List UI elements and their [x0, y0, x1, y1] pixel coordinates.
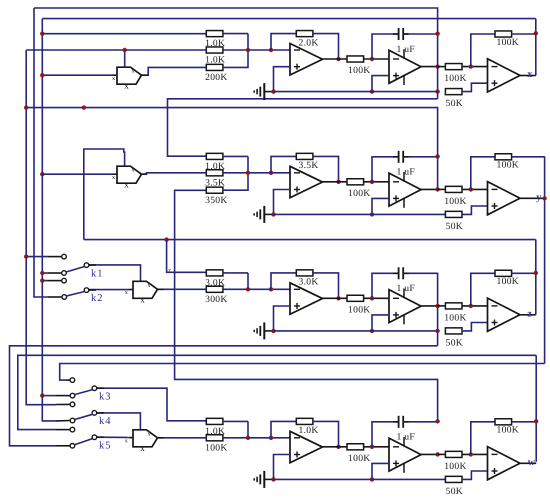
node net-x tap row2 multiplier [40, 172, 44, 176]
svg-text:50K: 50K [446, 486, 463, 497]
wire row2 R21 right lead to join [223, 155, 248, 157]
wire row1 U1A output to series resistor [323, 58, 348, 60]
node row1 cap junction [435, 32, 439, 36]
wire busB y=107.6 row2 integrator output to row1 input feed [26, 108, 437, 157]
wire k5 upper contact pin [56, 429, 70, 431]
wire row2 feedback 100K to output vertical [512, 156, 545, 158]
wire row1 U1C output [520, 75, 536, 77]
wire row3 R32 right lead to op-amp [223, 288, 290, 290]
node row4 third-stage minus node [469, 452, 473, 456]
wire row3 cap right lead to output vertical [403, 272, 437, 274]
svg-text:100K: 100K [205, 442, 228, 453]
wire k5 output pin [97, 436, 104, 438]
node row3 summing junction x=248 [246, 287, 250, 291]
wire k4 upper contact pin [56, 403, 70, 405]
svg-text:50K: 50K [446, 338, 463, 349]
op-amp U3A summing [290, 283, 323, 315]
svg-text:100K: 100K [497, 160, 520, 171]
wire row1 multiplier left input y=75.2 from net-x [42, 74, 113, 76]
resistor row3 feedback Rf3 3.0K [296, 270, 318, 288]
capacitor C3 lead stubs [393, 272, 398, 274]
wire row1 R11 right lead to join [223, 33, 248, 35]
wire row3 U3A feedback to resistor 3.0K [271, 273, 296, 289]
svg-text:1 uF: 1 uF [397, 432, 416, 443]
capacitor C2 lead stubs [393, 156, 398, 158]
wire k2 output to row3 multiplier left pin [89, 289, 129, 291]
ground row1 [254, 83, 273, 100]
svg-text:z: z [168, 267, 171, 274]
wire k3 output pin [97, 387, 104, 389]
svg-text:50K: 50K [446, 221, 463, 232]
node row3 integrator cap tap [370, 296, 374, 300]
node net-x feedback junction [534, 31, 538, 35]
resistor row3 feedback 100K [495, 270, 519, 287]
wire multiplier A4 output pin [158, 437, 164, 439]
wire k1 pivot feed from net-x [42, 272, 48, 274]
node row4 integrator output [435, 452, 439, 456]
wire row1 R13 right lead up to join [223, 50, 248, 67]
op-amp U1C inverter [488, 59, 521, 92]
node row2 summing junction x=248 [246, 171, 250, 175]
svg-text:x: x [124, 81, 129, 91]
ground row4 [254, 471, 273, 488]
resistor row2 feedback 100K [495, 154, 519, 171]
wire row1 feedback right side down to output [313, 34, 339, 59]
wire row4 U4A plus input to rail [274, 455, 291, 480]
wire row3 output node to input 100K [438, 305, 446, 307]
wire row2 cap right lead to output vertical [403, 156, 437, 158]
wire net-z riser x=83.8 to row2 multiplier top pin [84, 149, 125, 240]
wire row1 op-amp U1 minus input line y=50 [26, 49, 206, 51]
wire k5 output to row4 multiplier left pin [97, 436, 129, 438]
resistor row4 feedback Rf4 1.0K [296, 418, 318, 436]
resistor row1 input R11 1.0K [205, 31, 225, 50]
wire multiplier A2 output to 3.5K [142, 173, 207, 174]
wire k3 upper contact pin [66, 379, 70, 381]
node row4 rail at U4B plus drop [370, 477, 374, 481]
svg-text:1.0K: 1.0K [299, 425, 319, 436]
wire row2 ground rail to 50K [274, 213, 446, 215]
wire row4 U4C feedback to 100K [471, 422, 495, 455]
resistor row1 feedback 100K [495, 31, 519, 48]
op-amp U2B integrator [389, 172, 421, 208]
resistor row4 input R41 1.0K [205, 418, 225, 437]
node net-x tap row1 multiplier [40, 73, 44, 77]
resistor row2 series Rs2 100K [347, 179, 371, 199]
wire net-x left vertical x=42.3 with branch to k4 pivot [42, 19, 56, 421]
wire row4 100K to op-amp minus [462, 453, 488, 455]
svg-text:100K: 100K [444, 73, 467, 84]
wire row4 cap tap riser [372, 422, 399, 447]
resistor row1 input R12 1.0K [205, 47, 225, 66]
wire row3 ground rail [274, 330, 438, 332]
switch k2 [62, 278, 104, 304]
wire multiplier A4 output to 100K [158, 437, 207, 439]
wire row3 cap tap riser [372, 273, 399, 298]
node row2 integrator cap tap [370, 180, 374, 184]
wire row1 U1A feedback to resistor 2.0K [271, 34, 296, 50]
resistor row2 input R22 3.5K [205, 170, 225, 189]
node net-x tap row1 top resistor [40, 32, 44, 36]
svg-text:x: x [125, 438, 128, 444]
switch k4 [70, 402, 111, 427]
wire row4 feedback right side down to output [313, 421, 339, 446]
wire net-z drop to row3 top resistor 3.0K [167, 240, 207, 273]
wire net-y left vertical x=26.2 (row1 summing input feed) with branch to k4 upper contact [26, 50, 56, 405]
node row1 rail/50K junction [435, 89, 439, 93]
svg-text:3.5K: 3.5K [299, 160, 319, 171]
node net-x tap k3 pivot [40, 393, 44, 397]
wire k2 upper contact feed from net-x [42, 280, 48, 282]
svg-text:2.0K: 2.0K [299, 37, 319, 48]
svg-text:100K: 100K [497, 425, 520, 436]
node row1 rail at U1A plus drop [271, 89, 275, 93]
multiplier A2 [112, 166, 142, 189]
resistor row3 series Rs3 100K [347, 295, 371, 315]
op-amp U1B integrator [389, 49, 421, 85]
node row1 integrator output [435, 64, 439, 68]
wire row2 output vertical cap to output node [437, 156, 439, 189]
svg-text:x: x [112, 76, 115, 82]
wire row2 U2C feedback to 100K [471, 157, 495, 190]
wire row3 U3C output [520, 314, 536, 316]
resistor row4 series Rs4 100K [347, 444, 371, 464]
node row2 third-stage minus node [469, 187, 473, 191]
resistor row3 third-stage input 100K [444, 303, 467, 324]
svg-text:x: x [140, 443, 145, 453]
resistor row1 third-stage input 100K [444, 64, 467, 85]
wire row4 U4B plus input to rail [372, 463, 389, 479]
wire row2 R23 right lead up to join [223, 173, 248, 190]
wire bus2 net-w to k5 upper contact [18, 355, 536, 429]
resistor row1 series Rs1 100K [347, 56, 371, 76]
wire multiplier A1 top pin from minus line [124, 50, 126, 68]
wire row1 cap tap riser [372, 34, 399, 59]
resistor row2 input R21 1.0K [205, 153, 225, 172]
wire row4 output node to input 100K [438, 453, 446, 455]
svg-text:1 uF: 1 uF [397, 167, 416, 178]
op-amp U4B integrator [389, 437, 421, 473]
wire k3 pivot feed from net-x [42, 395, 56, 397]
wire row3 U3C feedback to 100K [471, 273, 495, 306]
resistor row3 bias 50K [445, 328, 463, 349]
wire row2 50K to plus input [462, 206, 488, 214]
resistor row2 third-stage input 100K [444, 186, 467, 207]
wire row3 R31 right lead to join [223, 272, 248, 274]
wire multiplier A3 left pin [129, 288, 133, 290]
wire net-u vertical x=174.6 row2 350K to bus4 [175, 190, 438, 421]
wire row3 U3A output to series resistor [323, 297, 348, 299]
svg-text:3.0K: 3.0K [299, 277, 319, 288]
svg-text:x: x [112, 175, 115, 181]
wire k1 pivot pin [48, 272, 62, 274]
svg-text:300K: 300K [205, 294, 228, 305]
wire row2 U2C output [520, 197, 545, 199]
svg-text:x: x [132, 168, 135, 174]
svg-text:100K: 100K [444, 461, 467, 472]
wire row2 series resistor to integrator minus [364, 181, 389, 183]
wire row4 U4C output [520, 462, 536, 464]
wire row2 net-x stub to multiplier [42, 173, 113, 175]
wire k1 output pin [89, 264, 96, 266]
wire net-gnd left vertical x=34 down to k2 pivot [34, 8, 48, 297]
node row4 integrator cap tap [370, 445, 374, 449]
wire k3 pivot pin [56, 395, 70, 397]
node row3 rail at U3A plus drop [271, 329, 275, 333]
svg-text:w: w [528, 457, 536, 468]
wire row4 cap right lead to output vertical [403, 421, 437, 423]
wire row3 feedback right side down to output [313, 273, 339, 298]
wire row3 series resistor to integrator minus [364, 297, 389, 299]
node row2 rail at U2B plus drop [370, 212, 374, 216]
wire row1 series resistor to integrator minus [364, 58, 389, 60]
wire row1 output vertical x=437.6 cap to busA [437, 34, 439, 99]
capacitor C4 1uF [397, 416, 416, 443]
wire row4 50K to plus input [462, 471, 488, 479]
resistor row4 input R42 100K [205, 435, 228, 454]
capacitor C1 1uF [397, 28, 416, 55]
multiplier A1 [112, 67, 142, 90]
svg-text:x: x [148, 431, 151, 437]
wire row1 100K to op-amp minus [462, 66, 488, 68]
op-amp U4C inverter [488, 447, 521, 480]
wire k4 pivot pin [56, 420, 70, 422]
svg-text:x: x [527, 69, 532, 80]
node multiplier A1 top pin tap [123, 48, 127, 52]
wire k2 upper contact pin [48, 280, 62, 282]
wire row3 100K to op-amp minus [462, 305, 488, 307]
node row1 U1A output junction [336, 57, 340, 61]
resistor row2 bias 50K [445, 211, 463, 232]
node row4 cap junction [435, 419, 439, 423]
wire row1 ground rail [274, 91, 438, 93]
wire k1 upper contact feed from net-y vertical [26, 256, 48, 258]
node row1 feedback tap on minus line [269, 48, 273, 52]
wire row4 U4A output to series resistor [323, 446, 348, 448]
resistor row4 bias 50K [445, 476, 463, 497]
node row4 summing junction x=248 [246, 436, 250, 440]
ground row2 [254, 206, 273, 223]
node row1 rail at U1B plus drop [370, 89, 374, 93]
wire net-z right vertical to bus z [535, 240, 537, 315]
node row1 summing junction x=248 [246, 48, 250, 52]
wire row4 join vertical x=248 [247, 421, 249, 437]
op-amp U2C inverter [488, 182, 521, 215]
wire row2 join vertical x=248 [247, 156, 249, 172]
wire row1 output node to input 100K [438, 66, 446, 68]
wire bus1 net row3-integrator to k5 lower contact [10, 346, 438, 446]
svg-text:350K: 350K [205, 195, 228, 206]
node row3 U3A output junction [336, 296, 340, 300]
wire row1 feedback 100K to output vertical [512, 33, 536, 35]
node row3 output junction [435, 304, 439, 308]
wire net-x right vertical [535, 19, 537, 76]
node row4 rail at U4A plus drop [271, 477, 275, 481]
wire row2 U2A output to series resistor [323, 181, 348, 183]
wire row4 U4A feedback to resistor 1.0K [271, 421, 296, 437]
node row3 rail/50K junction [435, 329, 439, 333]
resistor row1 bias 50K [445, 89, 463, 110]
wire multiplier A3 output pin [158, 288, 164, 290]
svg-text:k2: k2 [91, 293, 104, 304]
wire net-x top line y=18.6 from output x [42, 18, 536, 20]
wire row4 feedback 100K to output vertical [512, 421, 537, 423]
wire k2 pivot pin [48, 296, 62, 298]
wire bus3 net-y to k3 upper contact [60, 364, 545, 381]
node row2 feedback tap on minus line [269, 171, 273, 175]
svg-text:1 uF: 1 uF [397, 283, 416, 294]
capacitor C3 1uF [397, 267, 416, 294]
wire busA y=98.8 row1 integrator output to row2 top resistor [168, 99, 438, 156]
resistor row3 input R32 300K [205, 286, 228, 305]
wire multiplier A2 left pin from net-x [113, 173, 117, 175]
wire net-w right vertical to bus2 [535, 355, 537, 461]
switch k3 [70, 378, 111, 403]
svg-text:100K: 100K [497, 37, 520, 48]
wire row3 output vertical cap to bus1 [437, 273, 439, 346]
wire row2 U2B output to node [421, 188, 438, 190]
wire k3 output to row4 top resistor 1.0K [97, 388, 207, 421]
resistor row2 feedback Rf2 3.5K [296, 153, 318, 171]
node row3 integrator output [435, 304, 439, 308]
node row2 rail at U2A plus drop [271, 212, 275, 216]
node row4 feedback tap on minus line [269, 436, 273, 440]
wire k4 output pin [97, 412, 104, 414]
op-amp U3C inverter [488, 298, 521, 331]
wire k5 pivot pin [56, 445, 70, 447]
svg-text:50K: 50K [446, 98, 463, 109]
wire row4 U4B output to node [421, 453, 438, 455]
node row4 U4A output junction [336, 445, 340, 449]
wire row3 U3B output to node [421, 305, 438, 307]
wire k1 output to row3 multiplier top pin [89, 265, 141, 282]
svg-text:x: x [125, 290, 128, 296]
wire row4 R42 right lead to op-amp [223, 437, 290, 439]
svg-text:z: z [527, 309, 532, 320]
capacitor C1 lead stubs [393, 33, 398, 35]
svg-text:k4: k4 [99, 416, 112, 427]
node row2 cap junction [435, 154, 439, 158]
op-amp U1A summing [290, 44, 323, 76]
wire net-y right vertical to bus3 [544, 156, 546, 363]
wire row2 output node to input 100K [438, 188, 446, 190]
svg-text:100K: 100K [348, 453, 371, 464]
resistor row4 third-stage input 100K [444, 451, 467, 472]
wire row2 R22 right lead to op-amp [223, 172, 290, 174]
wire row2 U2A feedback to resistor 3.5K [271, 156, 296, 172]
wire row1 U1A plus input to rail [274, 67, 291, 92]
svg-text:100K: 100K [348, 188, 371, 199]
wire row4 ground rail to 50K [274, 478, 446, 480]
wire multiplier A1 left pin [113, 74, 117, 76]
resistor row1 input R13 200K [205, 64, 228, 83]
op-amp U2A summing [290, 166, 323, 198]
wire row1 U1C feedback to 100K [471, 34, 495, 67]
wire k4 output to row4 multiplier top pin [97, 413, 141, 430]
svg-text:x: x [148, 283, 151, 289]
wire row3 feedback 100K to output vertical [512, 272, 536, 274]
svg-text:x: x [132, 69, 135, 75]
wire row2 U2A plus input to rail [274, 190, 291, 215]
wire multiplier A1 output pin [142, 74, 149, 76]
svg-text:100K: 100K [444, 313, 467, 324]
wire row1 top resistor feed y=33.7 from net-x [42, 33, 206, 35]
svg-text:x: x [140, 295, 145, 305]
ground row3 [254, 322, 273, 339]
capacitor C2 1uF [397, 151, 416, 178]
multiplier A4 [125, 430, 158, 453]
node net-z tap to row3 top resistor [164, 237, 168, 241]
capacitor C4 lead stubs [393, 421, 398, 423]
resistor row2 input R23 350K [205, 187, 228, 206]
resistor row4 feedback 100K [495, 419, 519, 436]
wire row2 feedback right side down to output [313, 156, 339, 181]
wire multiplier A1 output to 200K [142, 67, 207, 75]
multiplier A3 [125, 281, 158, 304]
wire net-gnd top loop y=8 [34, 8, 438, 34]
node row2 U2A output junction [336, 180, 340, 184]
wire row2 100K to op-amp minus [462, 188, 488, 190]
wire row3 50K to plus input [462, 323, 488, 331]
node row1 third-stage minus node [469, 64, 473, 68]
wire row3 join vertical x=248 [247, 273, 249, 289]
node net-w feedback junction [534, 419, 538, 423]
node net-y output junction [542, 196, 546, 200]
wire row2 cap tap riser [372, 157, 399, 182]
svg-text:100K: 100K [348, 304, 371, 315]
switch k1 [62, 254, 104, 279]
wire row3 U3B plus input to rail [372, 315, 389, 331]
wire k2 output pin [89, 289, 96, 291]
wire multiplier A3 output to 300K [158, 288, 207, 290]
wire k1 upper contact pin [48, 256, 62, 258]
wire row1 cap right lead to output vertical [403, 33, 437, 35]
node net-z feedback junction [534, 271, 538, 275]
svg-text:200K: 200K [205, 72, 228, 83]
wire multiplier A2 output pin [142, 173, 147, 175]
svg-text:y: y [536, 192, 541, 203]
node stray junction on busB [82, 105, 86, 109]
svg-text:100K: 100K [444, 196, 467, 207]
svg-text:k5: k5 [99, 441, 112, 452]
svg-text:100K: 100K [497, 276, 520, 287]
node net-y tap k1 upper contact [24, 254, 28, 258]
node row1 integrator cap tap [370, 57, 374, 61]
switch k5 [70, 427, 111, 451]
node row3 feedback tap on minus line [269, 287, 273, 291]
wire row1 join vertical x=248 [247, 34, 249, 50]
wire row4 series resistor to integrator minus [364, 446, 389, 448]
wire row1 U1B plus input to rail [372, 76, 389, 92]
op-amp U4A summing [290, 431, 323, 463]
node net-x tap k2 upper contact [40, 278, 44, 282]
svg-text:k1: k1 [91, 269, 104, 280]
svg-text:x: x [124, 180, 129, 190]
resistor row1 feedback Rf1 2.0K [296, 31, 318, 49]
wire row1 R12 right lead to op-amp [223, 49, 290, 51]
op-amp U3B integrator [389, 289, 421, 325]
node net-x tap k1 pivot [40, 271, 44, 275]
wire row2 U2B plus input to rail [372, 198, 389, 214]
svg-text:1 uF: 1 uF [397, 44, 416, 55]
svg-text:k3: k3 [99, 392, 112, 403]
node busB joins x=26.2 [24, 105, 28, 109]
svg-text:100K: 100K [348, 65, 371, 76]
wire row3 U3A plus input to rail [274, 306, 291, 331]
node row3 rail at U3B plus drop [370, 329, 374, 333]
resistor row3 input R31 3.0K [205, 270, 225, 289]
wire row1 U1B output to node [421, 66, 438, 68]
